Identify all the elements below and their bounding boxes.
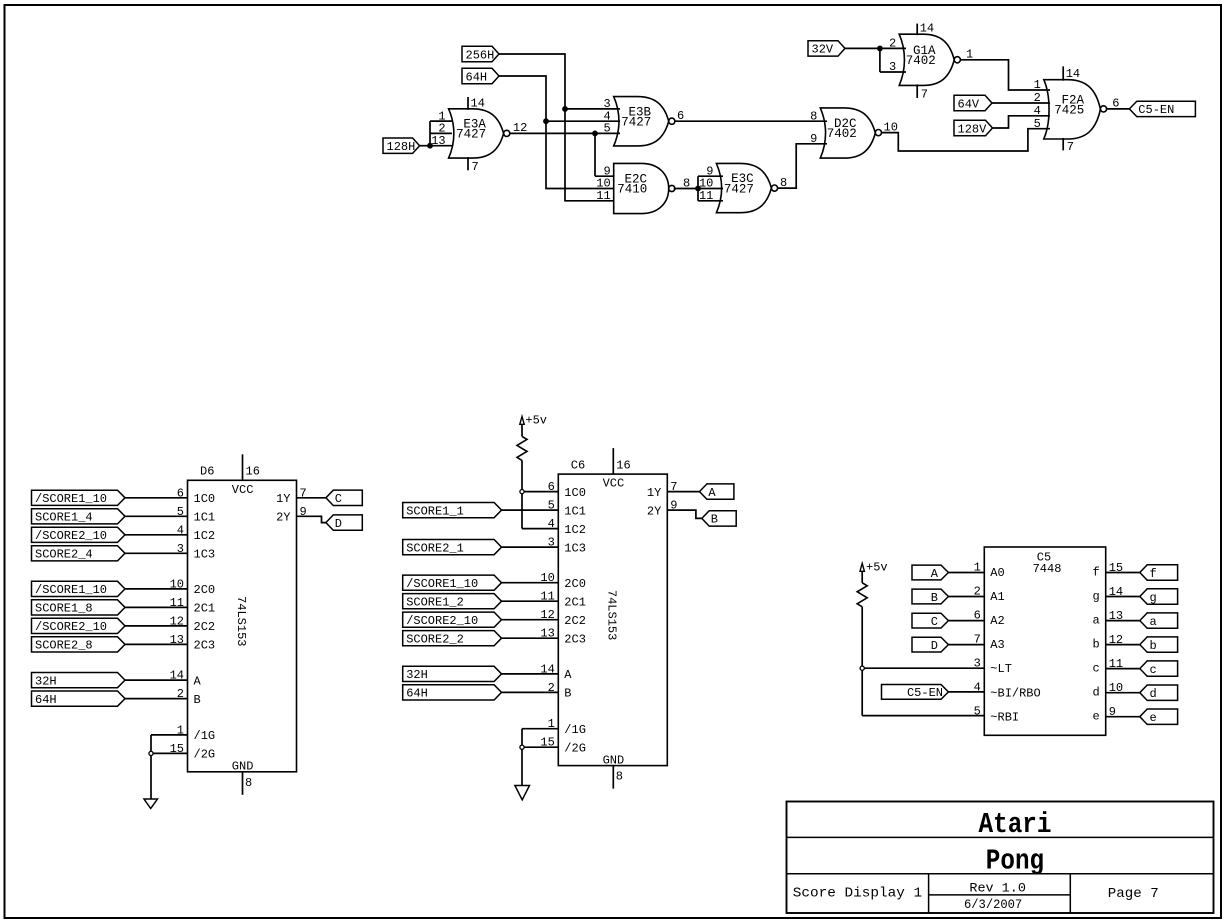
junction E3A.12/E2C.9 — [592, 131, 598, 137]
NOR gate E3C (7427) — [699, 163, 778, 212]
svg-text:1Y: 1Y — [647, 486, 661, 500]
wire /SCORE2_10 to C6 — [502, 619, 559, 621]
svg-text:g: g — [1150, 591, 1157, 605]
svg-text:11: 11 — [596, 189, 610, 203]
svg-text:A0: A0 — [990, 566, 1004, 580]
net label D (input flag to C5) — [912, 637, 948, 653]
E2C output bubble — [669, 185, 675, 191]
svg-text:d: d — [1092, 686, 1099, 700]
svg-text:B: B — [931, 591, 938, 605]
svg-text:/2G: /2G — [564, 742, 586, 756]
junction C6 /2G tie — [520, 745, 524, 749]
E3A ground pin 7 — [467, 157, 469, 170]
svg-text:SCORE2_8: SCORE2_8 — [35, 639, 93, 653]
svg-text:D: D — [931, 639, 938, 653]
net label SCORE2_8 (input flag to D6) — [32, 637, 126, 653]
svg-text:2C3: 2C3 — [564, 633, 586, 647]
svg-text:/1G: /1G — [194, 729, 216, 743]
wire C5-EN to C5 ~BI/RBO — [948, 691, 984, 693]
svg-text:8: 8 — [616, 770, 623, 784]
svg-text:1: 1 — [1034, 78, 1041, 92]
junction D6 /2G tie — [149, 751, 153, 755]
svg-text:D6: D6 — [200, 465, 214, 479]
junction C6 1C0 pullup — [520, 490, 524, 494]
svg-text:/SCORE1_10: /SCORE1_10 — [406, 577, 478, 591]
wire C5 to g — [1106, 596, 1140, 598]
net label 32V (input flag) — [808, 41, 845, 57]
wire E3B pin 3 stub — [565, 108, 620, 110]
NOR gate E3A (7427) — [431, 96, 510, 174]
svg-text:b: b — [1150, 639, 1157, 653]
wire 32H to C6 — [502, 673, 559, 675]
net label SCORE2_4 (input flag to D6) — [32, 546, 126, 562]
svg-text:256H: 256H — [466, 48, 495, 62]
svg-text:a: a — [1092, 613, 1099, 627]
E3C output bubble — [771, 185, 777, 191]
IC C6 74LS153 multiplexer — [540, 448, 677, 788]
svg-text:2C2: 2C2 — [194, 620, 216, 634]
net label D (output flag from D6 2Y) — [326, 515, 362, 531]
wire resistor to C6 1C0 and 1C2 — [522, 460, 558, 528]
svg-text:C: C — [931, 615, 938, 629]
junction 64H/E3B.4 — [543, 118, 549, 124]
wire A to C5 — [948, 572, 984, 574]
net label B (output flag from C6 2Y) — [702, 511, 736, 527]
F2A ground pin 7 — [1062, 138, 1064, 150]
svg-text:~LT: ~LT — [990, 662, 1012, 676]
svg-text:7427: 7427 — [456, 128, 486, 142]
svg-text:128H: 128H — [387, 140, 416, 154]
wire C6 2Y to B — [667, 510, 702, 518]
wire E3A.12 to E2C.9 — [595, 133, 614, 176]
net label A (output flag from C6 1Y) — [700, 484, 734, 500]
wire 256H to E3B pin3 / E2C pin11 — [499, 54, 614, 201]
svg-text:f: f — [1150, 567, 1157, 581]
wire +5v to resistor — [861, 571, 863, 583]
net label C5-EN (output flag) — [1129, 101, 1195, 117]
net label 256H (input flag) — [462, 46, 499, 62]
wire E3B.6 output to D2C.8 — [675, 109, 828, 123]
ground symbol (C6 enables) — [515, 786, 530, 800]
net label SCORE1_1 (input flag to C6) — [403, 503, 502, 519]
NOR gate D2C (7402) — [810, 108, 881, 158]
net label 64V (input flag) — [954, 95, 992, 111]
svg-text:5: 5 — [1034, 117, 1041, 131]
net label SCORE1_4 (input flag to D6) — [32, 509, 126, 525]
junction 128H/E3A.13 — [427, 143, 433, 149]
svg-text:f: f — [1092, 565, 1099, 579]
svg-text:+5v: +5v — [866, 561, 888, 575]
net label /SCORE1_10 (input flag to D6) — [32, 581, 126, 597]
G1A output bubble — [954, 57, 960, 63]
svg-text:1C0: 1C0 — [564, 486, 586, 500]
svg-text:d: d — [1150, 687, 1157, 701]
svg-text:7425: 7425 — [1054, 104, 1084, 118]
title text Atari — [979, 808, 1052, 841]
wire E3B pin 4 stub — [546, 120, 620, 122]
svg-text:B: B — [194, 693, 201, 707]
wire C5 to b — [1106, 644, 1140, 646]
net label C5-EN (input flag to C5) — [882, 685, 949, 701]
svg-text:C6: C6 — [571, 459, 585, 473]
svg-text:B: B — [564, 687, 571, 701]
net label 64H (input flag to D6) — [32, 691, 126, 707]
svg-text:8: 8 — [810, 109, 817, 123]
svg-text:A3: A3 — [990, 638, 1004, 652]
svg-text:VCC: VCC — [603, 477, 625, 491]
junction 32V/G1A.2 — [877, 46, 883, 52]
svg-text:1Y: 1Y — [276, 492, 290, 506]
svg-text:C: C — [335, 492, 342, 506]
wire C5 to a — [1106, 620, 1140, 622]
svg-text:c: c — [1150, 663, 1157, 677]
svg-text:SCORE1_4: SCORE1_4 — [35, 511, 93, 525]
wire C5 to e — [1106, 716, 1140, 718]
power symbol +5v (C6 pullup) — [520, 414, 547, 428]
D6 GND pin 8 — [242, 772, 244, 795]
wire SCORE2_2 to C6 — [502, 637, 559, 639]
resistor R (C5 pullup) — [857, 583, 867, 607]
net label 128V (input flag) — [954, 120, 993, 136]
wire SCORE1_8 to D6 — [125, 606, 188, 608]
wire D2C.10 output to F2A.5 — [881, 121, 1050, 152]
wire 64H to D6 — [125, 698, 188, 700]
svg-text:/SCORE1_10: /SCORE1_10 — [35, 583, 107, 597]
svg-text:7: 7 — [472, 160, 479, 174]
wire 64H to C6 — [502, 691, 559, 693]
svg-text:GND: GND — [232, 760, 254, 774]
title text 6/3/2007 — [964, 897, 1022, 912]
net label 32H (input flag to D6) — [32, 673, 126, 689]
svg-text:11: 11 — [699, 189, 713, 203]
svg-text:16: 16 — [246, 465, 260, 479]
wire C6 1Y to A — [667, 491, 699, 493]
svg-text:C5-EN: C5-EN — [907, 686, 943, 700]
net label A (input flag to C5) — [912, 565, 948, 581]
NAND gate E2C (7410) — [596, 163, 675, 213]
title text Rev 1.0 — [969, 880, 1026, 895]
title text Score Display 1 — [793, 886, 922, 902]
wire F2A.6 output to C5-EN — [1106, 97, 1129, 111]
svg-text:13: 13 — [431, 134, 445, 148]
wire 64H to E3B pin4 / E2C pin10 — [499, 76, 614, 189]
net label /SCORE2_10 (input flag to D6) — [32, 527, 126, 543]
wire C6 /1G,/2G to ground — [522, 729, 558, 786]
svg-text:GND: GND — [603, 753, 625, 767]
svg-text:7410: 7410 — [617, 183, 647, 197]
svg-text:2C1: 2C1 — [564, 596, 586, 610]
svg-text:/1G: /1G — [564, 723, 586, 737]
svg-text:SCORE2_1: SCORE2_1 — [406, 541, 464, 555]
svg-text:~BI/RBO: ~BI/RBO — [990, 686, 1040, 700]
svg-text:D: D — [335, 517, 342, 531]
svg-text:A: A — [564, 668, 572, 682]
svg-text:1C3: 1C3 — [564, 541, 586, 555]
wire SCORE2_8 to D6 — [125, 643, 188, 645]
wire /SCORE1_10 to D6 — [125, 497, 188, 499]
svg-text:5: 5 — [603, 122, 610, 136]
svg-text:14: 14 — [1066, 67, 1080, 81]
svg-text:7448: 7448 — [1033, 562, 1062, 576]
resistor R (C6 pullup) — [517, 436, 527, 460]
wire /SCORE1_10 to D6 — [125, 588, 188, 590]
svg-text:SCORE1_8: SCORE1_8 — [35, 602, 93, 616]
IC D6 74LS153 multiplexer — [170, 454, 307, 795]
net label /SCORE1_10 (input flag to D6) — [32, 490, 126, 506]
svg-text:64H: 64H — [466, 70, 488, 84]
wire /SCORE2_10 to D6 — [125, 534, 188, 536]
net label SCORE1_8 (input flag to D6) — [32, 600, 126, 616]
svg-text:2Y: 2Y — [276, 511, 290, 525]
wire E3A.12 output to E3B.5 — [509, 121, 620, 135]
svg-text:7: 7 — [921, 88, 928, 102]
net label f (output flag from C5) — [1140, 565, 1178, 581]
G1A power pin 14 — [916, 24, 918, 36]
wire E2C.8 output to E3C pins 9,10,11 — [674, 176, 723, 201]
D2C output bubble — [875, 130, 881, 136]
svg-text:3: 3 — [889, 60, 896, 74]
net label a (output flag from C5) — [1140, 613, 1178, 629]
svg-text:/SCORE2_10: /SCORE2_10 — [35, 620, 107, 634]
net label /SCORE2_10 (input flag to C6) — [403, 612, 502, 628]
svg-text:B: B — [711, 513, 718, 527]
svg-text:+5v: +5v — [525, 414, 547, 428]
wire SCORE2_4 to D6 — [125, 552, 188, 554]
svg-text:16: 16 — [616, 459, 630, 473]
title text Pong — [986, 844, 1044, 877]
E3A output bubble — [504, 130, 510, 136]
net label e (output flag from C5) — [1140, 709, 1178, 725]
wire SCORE1_4 to D6 — [125, 515, 188, 517]
title text Page 7 — [1108, 886, 1159, 902]
F2A power pin 14 — [1062, 66, 1064, 80]
wire +5v to resistor — [521, 424, 523, 436]
svg-text:6/3/2007: 6/3/2007 — [964, 897, 1022, 912]
NOR gate F2A (7425) — [1034, 66, 1107, 153]
net label 64H (input flag, top) — [462, 68, 499, 84]
svg-text:2: 2 — [889, 37, 896, 51]
net label /SCORE1_10 (input flag to C6) — [403, 575, 502, 591]
svg-text:e: e — [1092, 710, 1099, 724]
svg-text:c: c — [1092, 661, 1099, 675]
svg-text:Pong: Pong — [986, 844, 1044, 877]
svg-text:1C2: 1C2 — [194, 529, 216, 543]
E3A power pin 14 — [467, 97, 469, 110]
wire C5 to d — [1106, 692, 1140, 694]
svg-text:~RBI: ~RBI — [990, 710, 1019, 724]
svg-text:Score Display 1: Score Display 1 — [793, 886, 922, 902]
svg-text:1C1: 1C1 — [564, 504, 586, 518]
net label 64H (input flag to C6) — [403, 685, 502, 701]
svg-text:7427: 7427 — [724, 182, 754, 196]
net label C (input flag to C5) — [912, 613, 948, 629]
svg-text:Atari: Atari — [979, 808, 1052, 841]
svg-text:A: A — [931, 567, 939, 581]
svg-text:VCC: VCC — [232, 483, 254, 497]
IC C5 7448 BCD to 7-segment decoder — [974, 547, 1124, 735]
svg-text:14: 14 — [471, 96, 485, 110]
E3B output bubble — [669, 118, 675, 124]
svg-text:7: 7 — [1067, 140, 1074, 154]
svg-text:SCORE1_1: SCORE1_1 — [406, 504, 464, 518]
svg-text:A: A — [708, 486, 716, 500]
wire resistor to C5 ~LT and ~RBI — [862, 607, 984, 716]
C6 VCC pin 16 — [612, 448, 614, 474]
svg-text:4: 4 — [1034, 104, 1041, 118]
wire D to C5 — [948, 644, 984, 646]
ground symbol (D6 enables) — [144, 799, 158, 809]
wire C5 to f — [1106, 572, 1140, 574]
svg-text:SCORE1_2: SCORE1_2 — [406, 596, 464, 610]
svg-text:SCORE2_2: SCORE2_2 — [406, 633, 464, 647]
svg-text:SCORE2_4: SCORE2_4 — [35, 548, 93, 562]
wire /SCORE2_10 to D6 — [125, 625, 188, 627]
wire C to C5 — [948, 620, 984, 622]
svg-text:64V: 64V — [958, 97, 980, 111]
svg-text:/SCORE2_10: /SCORE2_10 — [406, 614, 478, 628]
svg-text:Rev 1.0: Rev 1.0 — [969, 880, 1026, 895]
svg-text:32V: 32V — [812, 43, 834, 57]
net label d (output flag from C5) — [1140, 685, 1178, 701]
NOR gate E3B (7427) — [603, 97, 674, 146]
svg-text:e: e — [1150, 711, 1157, 725]
wire 128V to F2A.4 — [993, 116, 1050, 128]
wire 32V to G1A pins 2,3 — [845, 48, 906, 72]
junction 256H/E3B.3 — [562, 106, 568, 112]
svg-text:g: g — [1092, 589, 1099, 603]
svg-text:74LS153: 74LS153 — [605, 590, 619, 640]
svg-text:A2: A2 — [990, 614, 1004, 628]
wire C5 to c — [1106, 668, 1140, 670]
svg-text:32H: 32H — [35, 674, 57, 688]
net label 128H (input flag) — [383, 138, 420, 154]
net label c (output flag from C5) — [1140, 661, 1178, 677]
net label g (output flag from C5) — [1140, 589, 1178, 605]
svg-text:1C1: 1C1 — [194, 511, 216, 525]
net label SCORE2_1 (input flag to C6) — [403, 540, 502, 556]
wire D6 /1G,/2G to ground — [151, 735, 188, 799]
svg-text:/2G: /2G — [194, 748, 216, 762]
wire D6 2Y to D — [297, 516, 326, 522]
svg-text:8: 8 — [245, 776, 252, 790]
svg-text:1C3: 1C3 — [194, 548, 216, 562]
svg-text:/SCORE2_10: /SCORE2_10 — [35, 529, 107, 543]
svg-text:2C1: 2C1 — [194, 602, 216, 616]
F2A output bubble — [1100, 106, 1106, 112]
D6 VCC pin 16 — [242, 454, 244, 480]
wire SCORE1_2 to C6 — [502, 600, 559, 602]
wire G1A.1 output to F2A.1 — [960, 48, 1050, 91]
net label SCORE1_2 (input flag to C6) — [403, 594, 502, 610]
wire E3C.8 output to D2C.9 — [778, 144, 827, 190]
svg-text:2C3: 2C3 — [194, 639, 216, 653]
svg-text:2Y: 2Y — [647, 504, 661, 518]
wire 64V to F2A.2 — [992, 102, 1050, 104]
net label B (input flag to C5) — [912, 589, 948, 605]
svg-text:2C0: 2C0 — [194, 583, 216, 597]
svg-text:A1: A1 — [990, 590, 1004, 604]
svg-text:74LS153: 74LS153 — [234, 596, 248, 646]
wire 32H to D6 — [125, 679, 188, 681]
net label 32H (input flag to C6) — [403, 666, 502, 682]
net label SCORE2_2 (input flag to C6) — [403, 631, 502, 647]
wire D6 1Y to C — [297, 497, 326, 499]
svg-text:C5-EN: C5-EN — [1138, 103, 1174, 117]
wire SCORE1_1 to C6 — [502, 509, 559, 511]
svg-text:1C2: 1C2 — [564, 523, 586, 537]
svg-text:a: a — [1150, 615, 1157, 629]
svg-text:/SCORE1_10: /SCORE1_10 — [35, 492, 107, 506]
title block frame — [787, 802, 1214, 914]
svg-text:1C0: 1C0 — [194, 492, 216, 506]
svg-text:64H: 64H — [406, 687, 428, 701]
NOR gate G1A (7402) — [889, 22, 960, 102]
junction C5 ~LT pullup — [860, 666, 864, 670]
junction E2C.8/E3C.10 — [695, 186, 701, 192]
net label b (output flag from C5) — [1140, 637, 1178, 653]
wire B to C5 — [948, 596, 984, 598]
svg-text:64H: 64H — [35, 693, 57, 707]
svg-text:14: 14 — [920, 22, 934, 36]
G1A ground pin 7 — [916, 84, 918, 98]
svg-text:b: b — [1092, 637, 1099, 651]
wire SCORE2_1 to C6 — [502, 546, 559, 548]
svg-text:2C0: 2C0 — [564, 577, 586, 591]
C6 GND pin 8 — [612, 766, 614, 789]
net label /SCORE2_10 (input flag to D6) — [32, 618, 126, 634]
svg-text:Page 7: Page 7 — [1108, 886, 1159, 902]
net label C (output flag from D6 1Y) — [326, 490, 362, 506]
svg-text:7427: 7427 — [621, 115, 651, 129]
svg-text:7402: 7402 — [906, 54, 936, 68]
power symbol +5v (C5 pullup) — [860, 561, 888, 575]
svg-text:32H: 32H — [406, 668, 428, 682]
svg-text:A: A — [194, 674, 202, 688]
wire /SCORE1_10 to C6 — [502, 582, 559, 584]
wire 128H to E3A pins 1,2,13 — [419, 121, 453, 146]
svg-text:2C2: 2C2 — [564, 614, 586, 628]
svg-text:9: 9 — [810, 132, 817, 146]
svg-text:7402: 7402 — [827, 127, 857, 141]
svg-text:128V: 128V — [958, 122, 988, 136]
